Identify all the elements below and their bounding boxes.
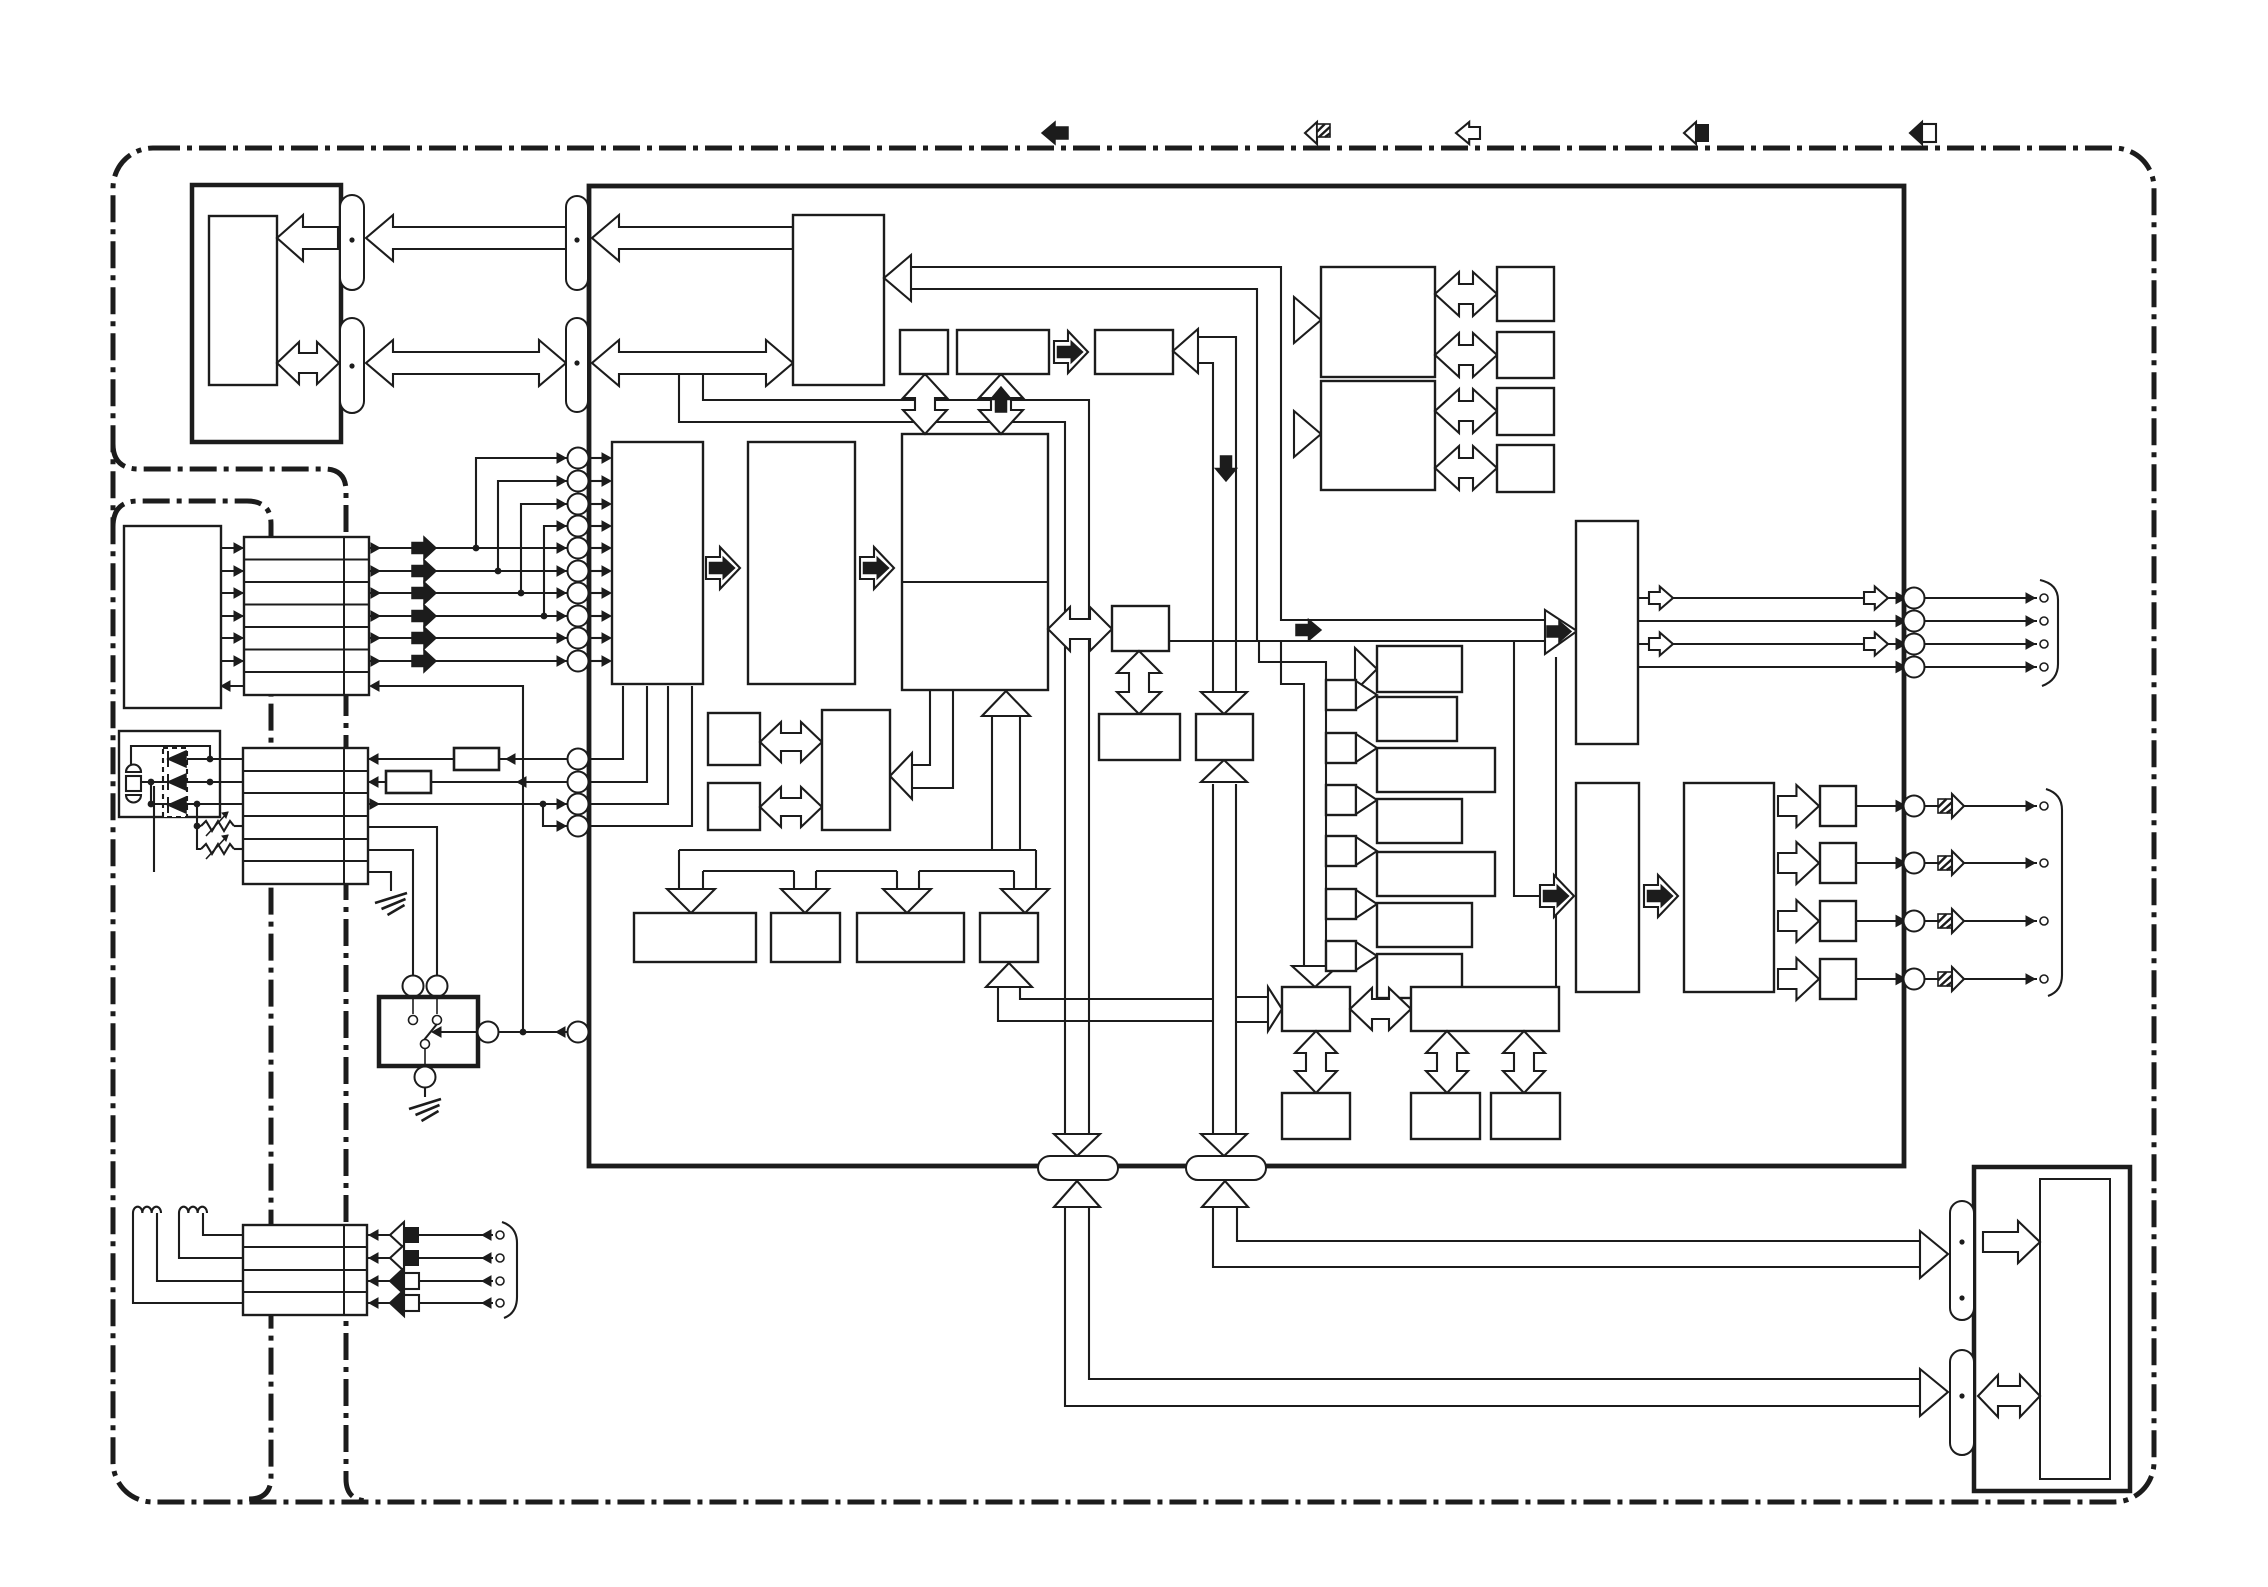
bus branch head into RAM R1 [1294,297,1321,343]
wire LB to CN1 row 5 [221,637,244,639]
interface block M1 [1095,330,1173,374]
sensor dome 2 [126,795,141,803]
drive connector pill 1 [1950,1201,1974,1320]
memory block T2 [1497,332,1554,378]
output buffer square 2 [1820,843,1856,883]
coil wires to CN3 [203,1213,243,1235]
key select square 6 [1326,941,1356,971]
hollow arrow IC internal to pill [592,215,793,261]
wire CN1 row 4 to IC pin [369,615,567,617]
key block K5 [1377,852,1495,896]
video line 3 [1856,920,1897,922]
bidirectional arrow pill2 to mechanism [1978,1375,2040,1417]
head up into block D [986,963,1032,987]
legend icon: hollow arrow solid source [1684,122,1696,144]
hatched arrow icon 1 [1938,799,1952,813]
photodiode D2 [168,774,186,790]
output buffer square 3 [1820,901,1856,941]
solid arrow icon on bus [1296,620,1321,641]
bidirectional arrow P1a to P2 [760,722,822,762]
bidirectional arrow P1b to P2 [760,787,822,827]
key block K3 [1377,748,1495,792]
solid arrow icon S2 to M1 [1054,331,1088,373]
bus pill to drive unit (wire pair) [1089,1208,1920,1379]
feed line to video encoder W1 [1514,641,1540,896]
bidirectional arrow S1 to D1 [903,374,947,434]
ROM block R2 [1321,381,1435,490]
decoder block C3 [1196,714,1253,760]
system bus blocks row: E1 [1282,987,1350,1031]
CPU block B1 [793,215,884,385]
audio DAC block V1 [1576,521,1638,744]
main IC block U1 [589,186,1904,1166]
IC pin circle (power sense) [568,1022,589,1043]
bus decoder C3 to bottom pill (wire pair) [1235,784,1237,1133]
dash-dot boundary: top-left sub-unit bottom edge [113,444,369,1501]
sensor wiring [187,758,243,760]
elbow arrow D1 bottom to P2 (wires) [912,691,930,765]
CN2 row4 wire to power switch [368,827,437,975]
solid bus arrow row 5 [412,627,436,649]
legend icon: solid arrow hollow source [1910,122,1922,144]
sdram block F2 [1411,1093,1480,1139]
CN2 row2 wire to IC [368,781,567,783]
external video line 1 [1925,805,2037,807]
audio pin circle 3 [1904,634,1925,655]
drive connector pill 2 [1950,1350,1974,1455]
audio pin circle 1 [1904,588,1925,609]
hollow arrow into display block [277,215,338,261]
key matrix bus (wire pair) [1259,641,1326,966]
sync block D [980,913,1038,962]
head into block D [1001,889,1049,913]
dash-dot boundary: mid-left sub-unit [113,501,271,1499]
CN2 row3 wire to IC [368,803,567,805]
switch lever [424,1024,437,1040]
video group bracket [2046,789,2062,996]
photodiode D1 [168,751,186,767]
video line 4 [1856,978,1897,980]
head into block B [781,889,829,913]
key select head 3 [1356,786,1377,814]
ground symbol [375,893,407,903]
peripheral block F1 [1411,987,1559,1031]
head up into D1 [982,691,1030,716]
bidirectional arrow IC internal to pill [592,340,793,386]
bus branch head into ROM R2 [1294,411,1321,457]
video line 1 [1856,805,1897,807]
key select square 3 [1326,785,1356,815]
IC pin circles (cn2 rows) [568,749,589,770]
AC group bracket [502,1222,517,1318]
variable resistor VR2 [201,844,234,854]
drive unit bold box [1974,1167,2130,1491]
solid bus arrow row 2 [412,560,436,582]
DSP block D1 [902,434,1048,690]
external audio line 3 [1925,643,2037,645]
key block K1 [1377,646,1462,692]
IC bottom connector pill (right) [1186,1156,1266,1180]
key select head 6 [1356,942,1377,970]
CN2 row1 wire to IC [368,758,567,760]
video pin circle 1 [1904,796,1925,817]
CN2 row5 wire to power switch [368,850,413,975]
bidirectional bus module to IC [366,340,566,386]
memory block T3 [1497,388,1554,435]
PLL block S2 [957,330,1049,374]
external audio line 2 [1925,620,2037,622]
bus head into decoder C3 [1201,692,1247,714]
bidirectional arrow R2 to memory T3 [1435,389,1497,433]
wire C1 to DAC bus [1169,640,1257,642]
CN2 row6 wire to ground [368,872,391,891]
hatched arrow icon 4 [1938,972,1952,986]
branch wire to upper pin 1 [473,545,480,552]
solid bus arrow row 6 [412,650,436,672]
connector pill on module edge (bottom) [340,318,364,413]
demod block A [634,913,756,962]
audio output line 1 [1638,597,1897,599]
servo block L2 [748,442,855,684]
CN3 row 1 wire [367,1234,493,1236]
external audio line 4 [1925,666,2037,668]
head into block A [667,889,715,913]
key block K2 [1377,697,1457,741]
sensor window [126,776,141,791]
audio group bracket [2040,580,2058,686]
audio output line 2 [1638,620,1897,622]
bus head down into pill (left) [1054,1134,1100,1156]
memory block T4 [1497,445,1554,492]
series resistor block R12 [386,771,431,793]
IC bottom connector pill (left) [1038,1156,1118,1180]
ground symbol under switch [409,1099,441,1109]
video encoder block W1 [1576,783,1639,992]
return wire IC to CN1 [378,686,523,1032]
photodiode array dashed box [163,748,187,817]
branch wire to upper pin 3 [518,590,525,597]
xtal driver block P2 [822,710,890,830]
video line 2 [1856,862,1897,864]
head down into E1 [1292,966,1338,987]
hollow arrow W2 to buffer 4 [1778,958,1819,1000]
buffer block C2 [1099,714,1180,760]
solid arrow icon into W1 [1540,875,1574,917]
wire CN1 to LB return [221,685,244,687]
key block K7 [1377,954,1462,998]
head into block C [883,889,931,913]
flash block F3 [1491,1093,1560,1139]
solid bus arrow row 4 [412,605,436,627]
output buffer square 4 [1820,959,1856,999]
key select head 5 [1356,890,1377,918]
bidirectional arrow display block to pill [277,342,339,384]
legend icon: hollow arrow with hatched source [1305,122,1317,144]
AC coil L10 [133,1207,161,1213]
legend icon: solid signal arrow [1042,122,1068,144]
head up into pill left [1054,1181,1100,1207]
wire LB to CN1 row 4 [221,615,244,617]
connector CN1 [244,537,369,695]
key select square 1 [1326,680,1356,710]
output buffer square 1 [1820,786,1856,826]
head up into pill right [1202,1181,1248,1207]
hollow arrow solid source icon 1 [390,1222,404,1248]
solid arrow icon L1 to L2 [706,547,740,589]
outer dash-dot unit boundary frame [113,148,2154,1502]
power switch box SW1 [379,997,478,1066]
AC coil L11 [179,1207,207,1213]
video pin circle 4 [1904,969,1925,990]
video pin circle 2 [1904,853,1925,874]
solid arrow icon W1 to W2 [1644,875,1678,917]
hollow arrow W2 to buffer 2 [1778,842,1819,884]
solid arrow hollow source icon 4 [390,1290,404,1316]
branch head into E1 [1268,987,1282,1031]
filter block B [771,913,840,962]
wire LB to CN1 row 3 [221,592,244,594]
connector pill on module edge (top) [340,195,364,290]
memory block T1 [1497,267,1554,321]
branch wire to upper pin 2 [495,568,502,575]
key scan block LB [124,526,221,708]
drive mechanism block [2040,1179,2110,1479]
switch contacts [412,997,414,1014]
audio pin circle 2 [1904,611,1925,632]
comb distribution bus to lower blocks (wires) [679,849,1036,851]
wire LB to CN1 row 6 [221,660,244,662]
wire CN1 row 1 to IC pin [369,547,567,549]
display driver block inside module [209,216,277,385]
legend icon: hollow signal arrow [1456,122,1480,144]
connector pill on IC edge (second) [566,318,588,412]
key select head 4 [1356,837,1377,865]
triangle head into K1 [1355,648,1377,691]
IC pin circles (left column) [568,448,589,469]
wide distribution bus wire pair (servo section) [703,374,1089,1133]
bus head into DAC V1 with solid arrow [1545,610,1577,654]
audio output line 3 [1638,643,1897,645]
photodiode D3 [168,797,186,813]
bidirectional arrow R2 to memory T4 [1435,446,1497,490]
RAM block R1 [1321,267,1435,377]
connector CN2 [243,748,368,884]
bidirectional arrow E1 to F1 [1350,988,1411,1030]
hollow arrow pill1 to mechanism [1983,1221,2040,1263]
key block K4 [1377,799,1462,843]
switch sense circle [478,1022,499,1043]
clock block S1 [900,330,948,374]
bidirectional arrow S2 to D1 with solid up arrow [979,374,1023,434]
osc block P1b [708,783,760,830]
wire CN1 row 3 to IC pin [369,592,567,594]
remote sensor box [119,731,220,817]
key select head 1 [1356,681,1377,709]
top-left module (front display) bold box [192,185,341,442]
bus pill to drive unit 2 (wire pair) [1237,1208,1920,1241]
wire CN1 row 2 to IC pin [369,570,567,572]
connector pill on IC edge (top) [566,196,588,290]
bidirectional arrow D1 to C1 [1048,607,1112,651]
hatched arrow icon 2 [1938,856,1952,870]
external audio line 1 [1925,597,2037,599]
variable resistor VR1 [201,821,234,831]
external video line 4 [1925,978,2037,980]
key select head 2 [1356,734,1377,762]
branch wire to upper pin 4 [541,613,548,620]
external video line 2 [1925,862,2037,864]
wire CN1 row 6 to IC pin [369,660,567,662]
head into drive pill 1 [1920,1231,1948,1278]
solid arrow icon L2 to D1 [860,547,894,589]
CN3 row 2 wire [367,1257,493,1259]
bus from M1 down to decoder C3 (wire pair) [1198,337,1236,692]
bus D bottom to decoder bus (wires) [998,988,1213,1021]
bus branch to E1 (wire pair) [1236,996,1268,998]
video amp block W2 [1684,783,1774,992]
bidirectional arrow E1 to E2 [1295,1031,1337,1093]
audio pin circle 4 [1904,657,1925,678]
solid down arrow icon on bus [1216,456,1237,481]
riser bus from comb to D1 (wire pair) [991,716,993,850]
solid bus arrow row 3 [412,582,436,604]
key-input block L1 [612,442,703,684]
bus head up into C3 [1201,760,1247,782]
switch bottom terminal circle [415,1067,436,1088]
CN3 row 4 wire [367,1302,493,1304]
eq block C [857,913,964,962]
routed bus from CPU to peripheral blocks (wire pair) [911,267,1548,620]
series resistor block R11 [454,748,499,770]
key select square 5 [1326,889,1356,919]
solid arrow hollow source icon 3 [390,1268,404,1294]
bidirectional arrow R1 to memory T2 [1435,333,1497,377]
hollow arrow W2 to buffer 3 [1778,900,1819,942]
controller block C1 [1112,606,1169,651]
head into drive pill 2 [1920,1369,1948,1416]
video pin circle 3 [1904,911,1925,932]
hollow data arrow from IC to module [366,215,566,261]
risers from IC pins to L1 [589,686,623,759]
solid bus arrow row 1 [412,537,436,559]
wire LB to CN1 row 2 [221,570,244,572]
bus head down into pill [1201,1134,1247,1156]
osc block P1a [708,713,760,765]
key select square 4 [1326,836,1356,866]
hollow arrow W2 to buffer 1 [1778,785,1819,827]
connector CN3 [243,1225,367,1315]
key block K6 [1377,903,1472,947]
external video line 3 [1925,920,2037,922]
eeprom block E2 [1282,1093,1350,1139]
bus head into M1 [1173,329,1198,373]
sensor dome 1 [126,765,141,772]
key select square 2 [1326,733,1356,763]
wire CN1 row 5 to IC pin [369,637,567,639]
bidirectional arrow R1 to memory T1 [1435,272,1497,316]
head left into P2 [890,753,912,799]
bidirectional arrow F1 to F3 [1503,1031,1545,1093]
wire LB to CN1 row 1 [221,547,244,549]
wire switch to IC pin [440,1031,477,1033]
hollow arrow solid source icon 2 [390,1245,404,1271]
hatched arrow icon 3 [1938,914,1952,928]
bidirectional arrow F1 to F2 [1426,1031,1468,1093]
audio output line 4 [1638,666,1897,668]
bidirectional arrow C1 to C2 [1117,651,1161,714]
bus head into CPU B1 [884,255,911,301]
power switch circles [403,976,424,997]
CN3 row 3 wire [367,1280,493,1282]
